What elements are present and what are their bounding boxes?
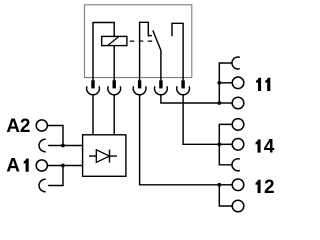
svg-text:A2: A2: [6, 116, 30, 137]
svg-text:4: 4: [264, 137, 275, 158]
svg-text:A: A: [6, 156, 20, 177]
svg-text:2: 2: [264, 177, 275, 198]
